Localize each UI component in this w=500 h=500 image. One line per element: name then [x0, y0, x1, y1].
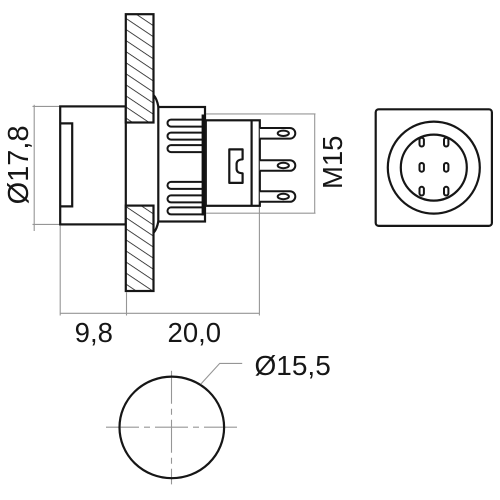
leader line [201, 363, 242, 384]
dim extension right [258, 207, 260, 316]
thread groove 4 [168, 182, 205, 189]
svg-text:Ø15,5: Ø15,5 [255, 350, 331, 381]
flange chamfer curve top [154, 95, 159, 106]
centerline vertical [171, 371, 173, 485]
panel top section (hatched) [126, 14, 154, 122]
thread groove 6 [168, 207, 205, 214]
thread groove 3 [168, 145, 205, 152]
latch detail [229, 149, 242, 183]
dim Ø17,8 line [33, 105, 35, 231]
bezel inner circle [401, 135, 467, 201]
cap face step [60, 123, 72, 206]
contact slot row2 col1 [420, 163, 424, 172]
dim M15 extension bottom [206, 212, 316, 214]
button cap [60, 106, 126, 224]
contact slot row1 col2 [444, 138, 448, 147]
thread groove 1 [168, 120, 205, 127]
contact slot row2 col2 [444, 163, 448, 172]
threaded bushing body [158, 107, 205, 222]
dim extension middle [126, 292, 128, 315]
flange chamfer curve bottom [154, 222, 159, 233]
rear cover plate line [251, 120, 253, 206]
dim M15 line [314, 114, 316, 213]
pin 3 hole [278, 194, 289, 199]
bezel outer circle [388, 122, 480, 214]
thread groove 5 [168, 195, 205, 202]
svg-text:9,8: 9,8 [75, 317, 113, 348]
dim Ø17,8 extension top [33, 105, 61, 107]
svg-text:M15: M15 [317, 136, 348, 190]
pin 1 (side) [260, 128, 296, 139]
centerline horizontal [106, 426, 238, 428]
contact slot row1 col1 [420, 138, 424, 147]
dim line bottom [60, 312, 259, 314]
seal ring (black) [202, 115, 206, 216]
rear housing [206, 120, 260, 206]
panel bottom section (hatched) [126, 206, 154, 291]
svg-text:Ø17,8: Ø17,8 [3, 125, 35, 204]
pin 3 (side) [260, 191, 296, 202]
dim 9,8 / 20,0 extension left [59, 226, 61, 316]
pin 2 (side) [260, 160, 296, 171]
cutout circle [120, 377, 225, 479]
flange square [376, 109, 492, 226]
dim Ø17,8 extension bottom [33, 223, 61, 225]
contact slot row3 col1 [420, 187, 424, 196]
dim M15 extension top [206, 113, 316, 115]
contact slot row3 col2 [444, 187, 448, 196]
thread groove 2 [168, 133, 205, 140]
svg-text:20,0: 20,0 [168, 317, 222, 348]
pin 2 hole [278, 163, 289, 168]
pin 1 hole [278, 131, 289, 136]
